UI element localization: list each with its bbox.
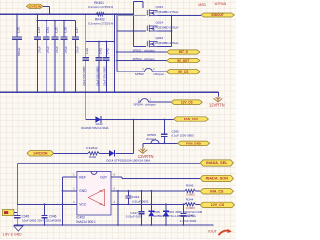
svg-text:5: 5: [114, 186, 116, 190]
svg-text:12V_CS: 12V_CS: [211, 203, 225, 207]
svg-text:Q013: Q013: [156, 5, 164, 9]
wire source bus: [171, 16, 173, 47]
svg-text:SP501 - chirtpon: SP501 - chirtpon: [133, 49, 156, 53]
wire: [85, 14, 87, 41]
wire: [49, 6, 51, 14]
svg-text:SP503: SP503: [135, 72, 144, 76]
port INA_CS: [200, 189, 233, 194]
wire: [117, 51, 167, 53]
wire: [172, 15, 202, 17]
svg-text:R344: R344: [186, 197, 194, 201]
wire 12V rail: [0, 91, 219, 93]
svg-text:FAN_VCC: FAN_VCC: [184, 117, 199, 121]
svg-text:OUT: OUT: [100, 176, 107, 180]
transistor Q013: [147, 9, 157, 16]
svg-text:PQ530BD-2Y5LH: PQ530BD-2Y5LH: [156, 10, 179, 14]
wire: [14, 212, 17, 214]
wire: [218, 92, 220, 96]
svg-text:2: 2: [153, 67, 155, 71]
svg-text:C35: C35: [55, 27, 59, 33]
capacitor C344: [127, 191, 129, 196]
svg-text:27uF: 27uF: [46, 46, 50, 53]
svg-text:Q014: Q014: [156, 20, 164, 24]
capacitor C35: [54, 21, 56, 37]
svg-text:5V_CS: 5V_CS: [178, 70, 188, 74]
wire: [54, 152, 88, 154]
svg-text:C34: C34: [46, 27, 50, 33]
wire: [85, 92, 87, 119]
svg-text:0.01uF 0603: 0.01uF 0603: [132, 199, 149, 203]
svg-text:D014 STPS30100A 100V/1A SMA: D014 STPS30100A 100V/1A SMA: [106, 158, 150, 162]
wire: [113, 14, 115, 92]
svg-text:27uF: 27uF: [55, 46, 59, 53]
diode D012: [95, 116, 101, 123]
capacitor C30: [16, 14, 18, 37]
wire: [158, 15, 172, 17]
svg-text:10uF 0805 25V 0.022uF0803: 10uF 0805 25V 0.022uF0803: [22, 219, 61, 223]
svg-text:0.01uF 0603: 0.01uF 0603: [126, 214, 143, 218]
pin 3: [63, 203, 77, 205]
svg-text:DGFM3 50V/1A SMA: DGFM3 50V/1A SMA: [81, 126, 108, 130]
wire: [17, 163, 19, 204]
port 5V_CS: [167, 70, 200, 74]
wire: [195, 190, 200, 192]
wire: [117, 191, 119, 225]
wire bus3: [86, 41, 115, 43]
svg-text:VCC: VCC: [79, 202, 87, 206]
capacitor C380: [163, 120, 165, 135]
diode D501: [165, 204, 167, 211]
capacitor C42: [105, 42, 107, 58]
svg-text:22uF 50V 0805: 22uF 50V 0805: [95, 66, 99, 86]
svg-text:1: 1: [142, 67, 144, 71]
diode D505: [150, 191, 152, 205]
port INT_S: [167, 50, 200, 54]
svg-text:0.2mohm 2725/1%: 0.2mohm 2725/1%: [88, 21, 114, 25]
ground: [14, 226, 23, 231]
capacitor C33: [36, 14, 38, 37]
port FAN_GND: [178, 141, 210, 145]
resistor R343: [185, 189, 196, 192]
svg-text:4: 4: [114, 200, 116, 204]
svg-text:2: 2: [150, 97, 152, 101]
svg-text:C37: C37: [75, 27, 79, 33]
pin 2: [63, 190, 77, 192]
wire: [195, 203, 200, 205]
op-amp IC403 body: [77, 171, 111, 215]
svg-text:INA_CS: INA_CS: [210, 190, 224, 194]
wire: [142, 143, 144, 147]
port INADA_SON: [200, 175, 233, 181]
svg-text:C344: C344: [132, 195, 140, 199]
resistor RK401: [96, 13, 104, 16]
pin 5 wire: [111, 190, 185, 192]
power port 12VRTN: [142, 147, 144, 153]
svg-text:C345: C345: [187, 213, 195, 217]
port INDOUT: [201, 13, 234, 17]
svg-text:0 0805: 0 0805: [186, 206, 195, 210]
svg-text:C41: C41: [98, 48, 102, 54]
svg-text:C42: C42: [106, 48, 110, 54]
svg-text:IN-: IN-: [99, 202, 103, 206]
resistor R402: [88, 152, 99, 155]
wire: [158, 30, 172, 32]
svg-text:5V_DET: 5V_DET: [177, 59, 189, 63]
fuse SP504: [138, 101, 141, 103]
wire INADA_SEL: [18, 162, 201, 164]
op-amp triangle: [88, 189, 104, 206]
pin 1: [71, 176, 77, 178]
diode D014: [109, 150, 114, 156]
svg-text:REF: REF: [79, 176, 86, 180]
svg-text:27uF: 27uF: [75, 46, 79, 53]
svg-text:...: ...: [231, 228, 233, 231]
svg-text:C33: C33: [37, 27, 41, 33]
svg-text:INA214 500:1: INA214 500:1: [76, 220, 96, 224]
svg-text:INT_S: INT_S: [179, 50, 188, 54]
svg-text:27uF: 27uF: [64, 46, 68, 53]
wire VCC net: [17, 203, 77, 205]
capacitor C41: [98, 42, 100, 58]
svg-text:22uF 50V 0805: 22uF 50V 0805: [103, 66, 107, 86]
port FAN_VCC: [174, 117, 209, 121]
transistor Q014: [147, 25, 157, 32]
capacitor C046: [44, 204, 46, 215]
wire: [158, 46, 172, 48]
svg-text:1: 1: [73, 172, 75, 176]
port 5V_DET: [167, 59, 200, 63]
port 12V_CS: [171, 100, 202, 105]
svg-text:MSD: MSD: [198, 3, 206, 7]
svg-text:INADA_SON: INADA_SON: [206, 177, 229, 181]
wire gate bus: [133, 1, 135, 46]
svg-text:0.47uF 0603: 0.47uF 0603: [180, 219, 197, 223]
node junctions bus2: [37, 20, 39, 22]
svg-text:FAN_GND: FAN_GND: [186, 142, 202, 146]
node junctions bus1: [16, 13, 18, 15]
svg-text:27uF: 27uF: [37, 46, 41, 53]
wire bus2: [37, 20, 75, 22]
svg-text:C30: C30: [17, 27, 21, 33]
wire: [99, 152, 109, 154]
wire FAN_VCC row: [86, 119, 174, 121]
wire: [62, 204, 64, 225]
svg-text:PQ530BD-2Y5LH: PQ530BD-2Y5LH: [156, 25, 179, 29]
wire Q1 gate: [117, 15, 146, 17]
capacitor C34: [45, 21, 47, 37]
svg-text:PQ530BD-2Y5LH: PQ530BD-2Y5LH: [156, 41, 179, 45]
wire: [132, 120, 134, 154]
svg-text:6: 6: [114, 173, 116, 177]
svg-text:0.1uF 100V 0805: 0.1uF 100V 0805: [172, 134, 195, 138]
wire: [143, 142, 178, 144]
fuse SP505: [151, 140, 159, 143]
svg-text:Q024: Q024: [156, 36, 164, 40]
wire REF net: [63, 176, 71, 178]
svg-text:0.2mohm 2725/1%: 0.2mohm 2725/1%: [88, 5, 114, 9]
svg-text:C36: C36: [64, 27, 68, 33]
svg-text:1.8V E GND: 1.8V E GND: [2, 232, 22, 236]
transistor Q024: [147, 40, 157, 47]
svg-text:IN+: IN+: [99, 189, 104, 193]
svg-text:0.3/2512: 0.3/2512: [86, 146, 98, 150]
wire: [62, 177, 64, 205]
svg-text:GND: GND: [79, 189, 87, 193]
svg-text:chirped: chirped: [146, 137, 156, 141]
svg-text:12V_CS: 12V_CS: [181, 100, 193, 104]
wire bus 12V: [0, 13, 134, 15]
wire: [43, 5, 50, 7]
svg-text:R343: R343: [186, 184, 194, 188]
svg-text:560uF: 560uF: [17, 47, 21, 56]
wire: [117, 60, 167, 62]
svg-text:SP504 - chirtpon: SP504 - chirtpon: [134, 103, 157, 107]
capacitor C347: [140, 204, 142, 211]
power port 12VRTN: [217, 97, 219, 102]
capacitor C37: [74, 21, 76, 37]
wire: [140, 191, 142, 205]
svg-text:12VRTN: 12VRTN: [138, 154, 154, 159]
port 12V_CS: [200, 202, 234, 207]
svg-text:INDOUT: INDOUT: [212, 13, 224, 17]
svg-text:INADA_SEL: INADA_SEL: [206, 161, 228, 165]
port flag: [2, 210, 14, 216]
svg-text:WTRAN: WTRAN: [215, 2, 227, 6]
svg-text:0 0805: 0 0805: [186, 193, 195, 197]
svg-text:R402: R402: [89, 155, 97, 159]
port 12VDCIN: [26, 4, 43, 8]
svg-text:IOUT: IOUT: [208, 230, 217, 234]
resistor R344: [185, 203, 196, 206]
svg-text:chirtpon: chirtpon: [153, 72, 164, 76]
svg-text:22uF 50V 0805: 22uF 50V 0805: [82, 66, 86, 86]
pin 6 OUT wire: [111, 176, 122, 178]
svg-text:3: 3: [73, 200, 75, 204]
wire: [116, 14, 118, 72]
svg-text:1: 1: [138, 97, 140, 101]
port INADA_SEL: [200, 160, 233, 166]
fuse SP503: [117, 71, 145, 73]
capacitor C40: [85, 42, 87, 58]
wire: [115, 152, 133, 154]
wire GND rail: [14, 224, 214, 226]
wire: [134, 0, 143, 2]
wire Q2 gate: [117, 30, 146, 32]
pin 4 wire: [111, 203, 185, 205]
svg-text:12VRTN: 12VRTN: [209, 102, 225, 107]
svg-text:C40: C40: [85, 48, 89, 54]
svg-text:12VDCIN: 12VDCIN: [29, 5, 41, 9]
wire Q3 gate: [134, 46, 146, 48]
svg-text:2: 2: [73, 186, 75, 190]
capacitor C045: [14, 214, 20, 216]
port 14DCIN: [27, 151, 54, 156]
capacitor C345: [183, 204, 185, 213]
capacitor C36: [63, 21, 65, 37]
svg-text:14VDCIN: 14VDCIN: [33, 152, 48, 156]
svg-text:SP502 - chirtpon: SP502 - chirtpon: [133, 57, 156, 61]
